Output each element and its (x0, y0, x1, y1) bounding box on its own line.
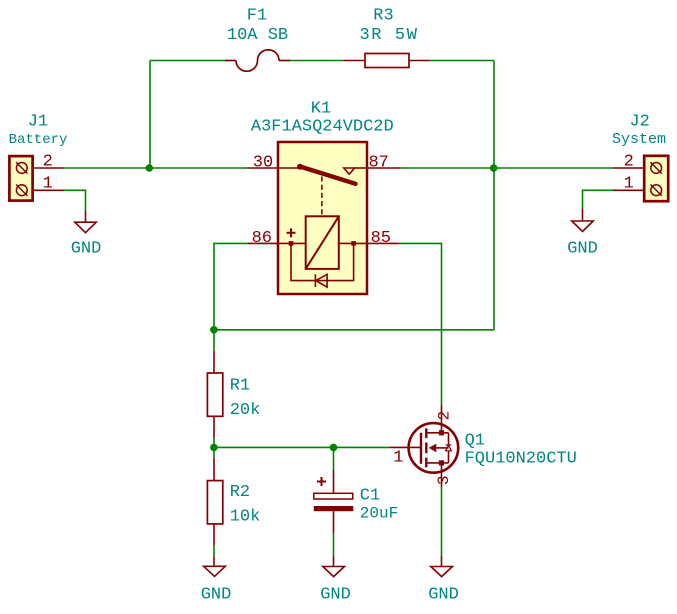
svg-text:F1: F1 (247, 7, 267, 26)
ground J1 (75, 211, 96, 233)
relay K1 (247, 142, 401, 294)
svg-text:1: 1 (43, 175, 53, 194)
svg-text:2: 2 (43, 153, 53, 172)
svg-text:FQU10N20CTU: FQU10N20CTU (465, 450, 577, 469)
svg-text:GND: GND (428, 586, 459, 605)
wire C1 bottom to GND (333, 533, 335, 556)
svg-text:R1: R1 (230, 377, 250, 396)
wire fuse to R3 (290, 60, 344, 62)
connector J1 (9, 156, 63, 201)
connector J2 (613, 156, 669, 201)
svg-text:J2: J2 (629, 113, 649, 132)
wire C1 top (333, 447, 335, 470)
svg-text:J1: J1 (28, 113, 48, 132)
wire horizontal mid bus (214, 329, 494, 331)
wire relay pin87 to J2 pin2 (401, 167, 613, 169)
transistor Q1 (390, 405, 458, 487)
wire J1 pin1 to GND (64, 190, 86, 210)
svg-text:GND: GND (201, 586, 232, 605)
svg-text:87: 87 (368, 154, 388, 173)
wire Q1 source to GND (441, 487, 443, 556)
svg-text:GND: GND (567, 240, 598, 259)
svg-text:3: 3 (435, 475, 453, 485)
wire gate node to Q1 gate (214, 446, 390, 448)
wire R2 bottom to GND (213, 545, 215, 556)
wire relay pin85 to Q1 drain (399, 243, 442, 405)
svg-text:R2: R2 (230, 483, 250, 502)
svg-text:GND: GND (71, 240, 102, 259)
junction at J1/relay node (146, 164, 154, 172)
wire R1 bottom to gate node (213, 438, 215, 458)
junction at coil node (210, 326, 218, 334)
resistor R1 (207, 351, 222, 438)
svg-text:20k: 20k (230, 401, 261, 420)
ground J2 (572, 209, 593, 232)
resistor R2 (207, 458, 222, 545)
junction at gate node left (210, 444, 218, 452)
ground R2 (204, 556, 226, 576)
wire J1 pin2 to relay pin30 (64, 167, 248, 169)
svg-text:3R 5W: 3R 5W (359, 26, 418, 45)
wire relay pin86 left and down (214, 243, 248, 350)
ground C1 (323, 556, 345, 577)
svg-text:30: 30 (253, 154, 273, 173)
junction at J2/relay node (490, 164, 498, 172)
svg-text:Battery: Battery (9, 132, 68, 148)
svg-text:C1: C1 (360, 487, 380, 506)
svg-text:86: 86 (252, 229, 272, 248)
svg-text:10A SB: 10A SB (227, 26, 288, 45)
svg-text:2: 2 (436, 411, 454, 421)
capacitor C1 (314, 470, 354, 533)
svg-text:GND: GND (320, 586, 351, 605)
wire R3 to top-right corner (430, 60, 494, 62)
svg-text:R3: R3 (373, 7, 393, 26)
svg-text:2: 2 (624, 153, 634, 172)
resistor R3 (344, 54, 430, 68)
svg-text:1: 1 (393, 449, 403, 468)
svg-text:10k: 10k (230, 508, 261, 527)
ground Q1 (431, 556, 453, 577)
svg-text:1: 1 (624, 175, 634, 194)
wire top-left vertical (149, 61, 151, 169)
fuse F1 (225, 50, 290, 72)
svg-text:K1: K1 (311, 100, 331, 119)
svg-text:20uF: 20uF (360, 505, 398, 523)
svg-text:System: System (612, 131, 666, 148)
svg-text:85: 85 (371, 229, 391, 248)
wire top-left horizontal to fuse (150, 60, 225, 62)
svg-text:A3F1ASQ24VDC2D: A3F1ASQ24VDC2D (251, 118, 394, 137)
svg-text:Q1: Q1 (465, 432, 485, 451)
junction at gate node C1 (330, 444, 338, 452)
wire right vertical bus (493, 61, 495, 331)
wire J2 pin1 to GND (583, 190, 613, 209)
